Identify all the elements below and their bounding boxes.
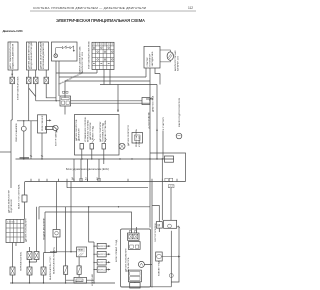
svg-text:КЛАПАН ОСТАНОВА: КЛАПАН ОСТАНОВА: [104, 120, 107, 142]
bus to ECU drops: [74, 159, 104, 182]
wire stop switch: [56, 182, 58, 230]
svg-text:РЕЛЕ СВЕЧЕЙ: РЕЛЕ СВЕЧЕЙ: [41, 115, 44, 131]
right wire 2: [171, 227, 179, 282]
relay ladder wire C: [65, 81, 150, 98]
right vertical wire: [121, 231, 172, 287]
relay small box: [132, 133, 143, 144]
starter feed arrow: [146, 98, 153, 101]
arrowhead: [117, 110, 119, 112]
wire arrow right: [162, 256, 179, 258]
wire starter branch: [162, 131, 164, 160]
injector 4: [97, 267, 106, 272]
ECU pin boxes: [80, 178, 83, 181]
wire drop x118: [117, 85, 119, 113]
pump top pins: [129, 231, 131, 233]
bus fuse box: [165, 156, 174, 162]
shutoff valve box: [156, 252, 163, 261]
svg-text:КЛАПАН ТНВД: КЛАПАН ТНВД: [158, 260, 161, 276]
ECU pin marks: [31, 179, 177, 182]
svg-text:ДАТЧИК ДАВЛЕНИЯ ВОЗД.: ДАТЧИК ДАВЛЕНИЯ ВОЗД.: [27, 41, 30, 69]
wire under ECU y188: [67, 182, 148, 188]
svg-text:Двигатель C223: Двигатель C223: [3, 29, 23, 33]
harness big box: [75, 115, 120, 156]
sensor circle right: [169, 274, 173, 278]
svg-text:РЕЛЕ СТАРТЕРА: РЕЛЕ СТАРТЕРА: [135, 129, 138, 147]
connector plug X3: [34, 77, 39, 84]
svg-text:ДВИГАТЕЛЯ: ДВИГАТЕЛЯ: [78, 128, 81, 141]
svg-text:РЕЙКИ ТНВД: РЕЙКИ ТНВД: [92, 126, 95, 140]
svg-text:РЕЛЕ: РЕЛЕ: [78, 250, 84, 252]
pump outer box: [121, 229, 151, 287]
right wire corner: [150, 153, 186, 182]
svg-text:БАТАРЕЯ 12 В: БАТАРЕЯ 12 В: [177, 55, 180, 71]
fuse box grid rows: [92, 46, 114, 66]
bus node dots: [23, 158, 163, 159]
AC relay box: [77, 247, 87, 257]
connector XD: [27, 267, 32, 275]
ignition switch terminal circle: [54, 54, 58, 58]
node dot: [23, 120, 24, 121]
fuse box drops: [97, 70, 110, 85]
relay ladder wire D: [100, 84, 157, 86]
injector bus: [93, 242, 95, 283]
ignition switch contact: [56, 46, 74, 54]
wire S2b down: [35, 70, 37, 101]
injector left pins: [94, 246, 97, 269]
glow plug lamp: [53, 125, 58, 130]
svg-text:ДИАГНОСТИКА: ДИАГНОСТИКА: [152, 95, 155, 112]
wire S3 down: [46, 70, 56, 98]
svg-text:112: 112: [188, 6, 193, 10]
pump motor circle: [138, 261, 144, 267]
fuse box grid: [92, 42, 114, 69]
resistor R2: [77, 266, 81, 274]
svg-text:+12 В ПИТАНИЕ: +12 В ПИТАНИЕ: [147, 112, 150, 129]
connector pair XB: [34, 252, 39, 260]
sensor box S3: [39, 42, 49, 70]
wire to AC relay: [50, 251, 77, 253]
svg-text:ФОРС.4: ФОРС.4: [98, 268, 106, 271]
aux box: [164, 220, 177, 228]
svg-text:ДАТЧИК ПОЛОЖЕНИЯ: ДАТЧИК ПОЛОЖЕНИЯ: [24, 218, 27, 242]
stop switch lower wire: [44, 237, 57, 267]
wire main feed: [36, 100, 142, 102]
svg-text:КОНТР. ЛАМПА: КОНТР. ЛАМПА: [55, 130, 58, 146]
ignition switch box: [52, 42, 78, 61]
block pin drop: [64, 106, 66, 115]
sensor box S1: [8, 42, 18, 70]
wire injector feed: [89, 207, 94, 242]
tick: [178, 226, 180, 229]
pump control box: [128, 242, 140, 250]
connector plug X2: [27, 77, 32, 84]
svg-text:В МОНТАЖНЫЙ БЛОК: В МОНТАЖНЫЙ БЛОК: [17, 76, 20, 100]
svg-text:АККУМУЛЯТОР 12 В: АККУМУЛЯТОР 12 В: [81, 51, 84, 73]
svg-text:КОЛЕНВАЛА ДВИГАТЕЛЯ: КОЛЕНВАЛА ДВИГАТЕЛЯ: [42, 43, 45, 69]
injector 1: [97, 243, 106, 248]
svg-text:К СТАРТЕРУ: К СТАРТЕРУ: [162, 116, 165, 130]
wire under ECU b: [45, 212, 132, 253]
jog wire: [29, 88, 36, 97]
stop switch box: [53, 230, 60, 238]
pump bottom connector: [128, 270, 141, 282]
pump top connector: [128, 233, 140, 240]
link wire: [30, 247, 37, 267]
svg-text:Блок управления двигателем (EC: Блок управления двигателем (ECU): [66, 167, 109, 171]
ballast resistor: [46, 127, 54, 130]
resistor feed wires: [66, 207, 80, 283]
fuse symbols: [93, 47, 113, 60]
bottom sensor wires: [66, 279, 94, 281]
glow relay outputs: [31, 121, 42, 159]
terminal bar: [20, 156, 30, 159]
pump lower aux box: [130, 283, 140, 288]
M valve box: [156, 222, 162, 229]
node dot: [56, 100, 57, 101]
svg-text:ПЕРЕКЛЮЧАТЕЛЬ: ПЕРЕКЛЮЧАТЕЛЬ: [20, 251, 23, 271]
main bus: [16, 158, 175, 160]
pin box P0: [80, 144, 84, 150]
clutch switch box: [22, 195, 27, 202]
svg-text:ФОРС.3: ФОРС.3: [98, 261, 106, 264]
resistor R1: [64, 266, 68, 274]
chevrons: [30, 155, 43, 157]
relay ladder wire B: [59, 76, 146, 78]
glow plug branch wire: [17, 120, 38, 122]
svg-text:СЦЕПЛЕНИЯ: СЦЕПЛЕНИЯ: [11, 199, 13, 213]
svg-text:И СВЕЧЕЙ: И СВЕЧЕЙ: [138, 135, 141, 147]
svg-text:ВЫКЛ. СТОП-СИГНАЛА: ВЫКЛ. СТОП-СИГНАЛА: [18, 184, 21, 209]
bottom sensor box: [74, 277, 87, 283]
wire S1 down: [11, 70, 13, 120]
connector XE: [41, 267, 46, 275]
injector 3: [97, 260, 106, 265]
svg-text:ЗАМОК ЗАЖИГАНИЯ АКБ: ЗАМОК ЗАЖИГАНИЯ АКБ: [79, 46, 82, 73]
svg-text:БЛОК УПРАВЛ. ТНВД: БЛОК УПРАВЛ. ТНВД: [115, 239, 118, 262]
svg-text:1 2 3 4 5: 1 2 3 4 5: [7, 222, 16, 224]
svg-text:ДАТЧИК ВКЛЮЧЕНИЯ: ДАТЧИК ВКЛЮЧЕНИЯ: [8, 190, 11, 213]
svg-text:ДАТЧИК ОБОРОТОВ ДВИГ.: ДАТЧИК ОБОРОТОВ ДВИГ.: [39, 41, 42, 69]
glow relay box: [38, 115, 47, 133]
pump bottom stub: [135, 227, 152, 283]
arrow on x163: [156, 129, 158, 131]
battery hatch: [168, 53, 172, 59]
wire under ECU a: [39, 207, 150, 220]
svg-text:СИСТЕМА УПРАВЛЕНИЯ ДВИГАТЕЛЕМ: СИСТЕМА УПРАВЛЕНИЯ ДВИГАТЕЛЕМ — ДИЗЕЛЬНЫ…: [33, 6, 146, 10]
generator box: [144, 46, 160, 68]
svg-text:СВЕЧИ НАКАЛИВ.: СВЕЧИ НАКАЛИВ.: [15, 123, 18, 142]
bottom bus: [10, 282, 115, 284]
pin box P1: [90, 144, 94, 150]
indicator lamp: [119, 143, 125, 149]
vertical text inside S boxes: [9, 40, 45, 69]
svg-text:МОНТАЖНЫЙ БЛОК РЕЛЕ: МОНТАЖНЫЙ БЛОК РЕЛЕ: [87, 41, 90, 69]
svg-text:ФОРС.1: ФОРС.1: [98, 245, 106, 248]
svg-text:ДАТЧ. ТЕМПЕРАТУРЫ ОХЛ.: ДАТЧ. ТЕМПЕРАТУРЫ ОХЛ.: [9, 40, 12, 69]
wire secondary feed: [71, 102, 151, 104]
svg-text:ВАЛА НАСОСА: ВАЛА НАСОСА: [127, 257, 130, 272]
block pins top: [63, 91, 65, 93]
pin box P2: [102, 144, 106, 150]
clutch wires: [24, 182, 26, 220]
glow plug connector block: [60, 96, 71, 106]
wire glow drop: [23, 121, 25, 159]
injector arrows: [106, 246, 110, 269]
svg-text:ЭЛЕКТРИЧЕСКАЯ ПРИНЦИПИАЛЬНАЯ С: ЭЛЕКТРИЧЕСКАЯ ПРИНЦИПИАЛЬНАЯ СХЕМА: [56, 18, 145, 23]
connector pair XA: [27, 252, 32, 260]
wire AC feed: [70, 182, 72, 252]
connector plug X1: [10, 77, 15, 84]
wire x157 drop: [156, 85, 158, 160]
right mid wires: [152, 159, 171, 288]
diagnostic connector: [142, 98, 150, 105]
ECU top line: [25, 181, 186, 183]
wire left ground: [0, 151, 11, 153]
bottom node dots: [12, 282, 95, 283]
connector plug X4: [44, 77, 49, 84]
harness pin drops to bus: [82, 149, 104, 159]
generator down wires: [146, 68, 160, 85]
injector 2: [97, 252, 106, 257]
svg-text:ЖИДКОСТИ ДВИГАТЕЛЯ: ЖИДКОСТИ ДВИГАТЕЛЯ: [12, 43, 15, 69]
fuse box grid columns: [96, 42, 111, 69]
svg-text:ДАТЧИК СКОРОСТИ: ДАТЧИК СКОРОСТИ: [127, 124, 130, 146]
relay ladder wire A: [56, 72, 97, 74]
glow plug sensor circle: [21, 126, 26, 131]
connector XC: [10, 267, 15, 275]
generator bracket wires: [160, 50, 170, 62]
junction dots: [88, 206, 89, 207]
table wires down: [13, 243, 17, 268]
sensor box S2: [27, 42, 37, 70]
svg-text:МОТОР ОПЕРЕЖ.: МОТОР ОПЕРЕЖ.: [155, 222, 157, 241]
svg-text:ДАТЧИК: ДАТЧИК: [75, 280, 84, 283]
wire to XB: [36, 207, 38, 252]
wire ignition feed: [56, 61, 59, 101]
svg-text:M: M: [158, 223, 161, 227]
svg-text:ВЫКЛЮЧАТЕЛЬ КОНДИЦ.: ВЫКЛЮЧАТЕЛЬ КОНДИЦ.: [52, 247, 55, 274]
header rule: [30, 10, 196, 12]
pedal sensor table: [6, 219, 24, 242]
svg-text:СТАРТЕР: СТАРТЕР: [146, 57, 149, 67]
svg-text:ФОРСУНКИ: ФОРСУНКИ: [91, 273, 94, 286]
bottom drops: [13, 275, 44, 283]
svg-text:ВЫКЛЮЧАТЕЛЬ СТОП: ВЫКЛЮЧАТЕЛЬ СТОП: [49, 256, 52, 280]
svg-text:ЗАРЯДКИ АКБ: ЗАРЯДКИ АКБ: [151, 51, 154, 66]
svg-text:ПЕДАЛИ АКСЕЛЕРАТ.: ПЕДАЛИ АКСЕЛЕРАТ.: [43, 217, 46, 240]
oil pressure sender: [176, 133, 182, 139]
wire S2a down: [28, 70, 30, 121]
hatched terminal box: [168, 185, 174, 188]
M box bottom pin: [158, 228, 160, 232]
wire left drop to ECU area: [11, 120, 12, 188]
node dots: [29, 261, 30, 262]
svg-text:МАСЛО ГИДРОУСИЛИТЕЛЯ: МАСЛО ГИДРОУСИЛИТЕЛЯ: [178, 97, 181, 127]
battery symbol: [167, 52, 173, 60]
wire 12V drop: [149, 85, 151, 228]
svg-text:ВОЗДУХА НА ВПУСКЕ ДВС: ВОЗДУХА НА ВПУСКЕ ДВС: [30, 41, 33, 69]
wire to arrow: [47, 119, 51, 121]
svg-text:ФОРС.2: ФОРС.2: [98, 253, 106, 256]
